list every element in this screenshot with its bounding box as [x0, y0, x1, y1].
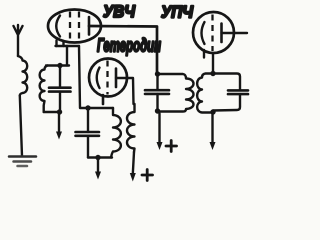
- wire tank1 top: [46, 64, 69, 66]
- node oscillator top junction: [85, 105, 90, 110]
- tube V2 cathode: [97, 68, 100, 89]
- wire supply lead with arrow: [158, 114, 160, 144]
- coil L3 oscillator coil: [111, 108, 121, 158]
- node tank2 top junction: [155, 71, 160, 76]
- coil L6 tank3 coil: [197, 74, 213, 113]
- node tank1 bottom junction: [57, 109, 62, 114]
- tube V1 cathode: [56, 16, 60, 37]
- node tank1 top junction: [57, 63, 62, 68]
- node tank3 bottom junction: [210, 109, 215, 114]
- capacitor C2: [76, 108, 100, 158]
- wire V3 anode output: [222, 32, 248, 34]
- wire bias bus: [56, 45, 80, 47]
- coil L4 heterodyne coupling coil: [127, 104, 135, 152]
- coil L1 antenna coil: [18, 56, 27, 96]
- wire supply lead with arrow: [211, 114, 213, 143]
- tube V2 cathode lead hook: [102, 95, 105, 104]
- wire antenna to ground: [20, 96, 22, 157]
- plus sign: [142, 170, 153, 181]
- ground: [9, 157, 36, 167]
- node oscillator bottom junction: [95, 155, 100, 160]
- tube V1 grid 2: [78, 12, 80, 41]
- wire V1 anode to mixer tank: [89, 26, 157, 73]
- tube V1 anode: [88, 17, 91, 35]
- wire V2 anode to coil L4: [116, 78, 134, 104]
- svg-text:УПЧ: УПЧ: [161, 3, 194, 22]
- wire tank1 bottom: [44, 111, 61, 113]
- wire oscillator bottom: [88, 156, 112, 158]
- node tank3 top junction: [210, 71, 215, 76]
- wire V3 grid lead down: [212, 54, 214, 74]
- wire supply lead with arrow: [97, 159, 99, 173]
- capacitor C4: [213, 74, 248, 111]
- tube V3 cathode: [202, 22, 205, 44]
- coil L5 tank2 coil: [158, 74, 194, 112]
- tube V3 grid: [211, 15, 213, 52]
- coil L2 secondary: [40, 66, 48, 113]
- tube V3 anode: [220, 24, 223, 43]
- wire V3 cathode lead: [203, 50, 205, 58]
- tube V2 grid: [106, 61, 108, 95]
- svg-text:Гетеродин: Гетеродин: [97, 36, 161, 56]
- wire supply lead with arrow: [58, 114, 60, 133]
- capacitor C3: [145, 74, 169, 112]
- plus sign: [166, 141, 177, 152]
- capacitor C1: [49, 66, 71, 113]
- node tank2 bottom junction: [155, 108, 160, 113]
- tube V2 anode: [115, 69, 118, 88]
- antenna W1: [14, 25, 23, 56]
- wire grid drop to tank1: [66, 46, 68, 66]
- tube V3 UPCh envelope: [193, 12, 234, 53]
- tube V1 grid 1: [69, 12, 71, 41]
- tube V1 UVCh envelope: [48, 10, 101, 43]
- wire long drop to oscillator: [79, 46, 113, 108]
- tube V2 heterodyne envelope: [89, 59, 127, 97]
- svg-text:УВЧ: УВЧ: [103, 2, 136, 21]
- wire supply lead with arrow: [133, 152, 134, 174]
- wire V1 cathode leads: [55, 41, 57, 47]
